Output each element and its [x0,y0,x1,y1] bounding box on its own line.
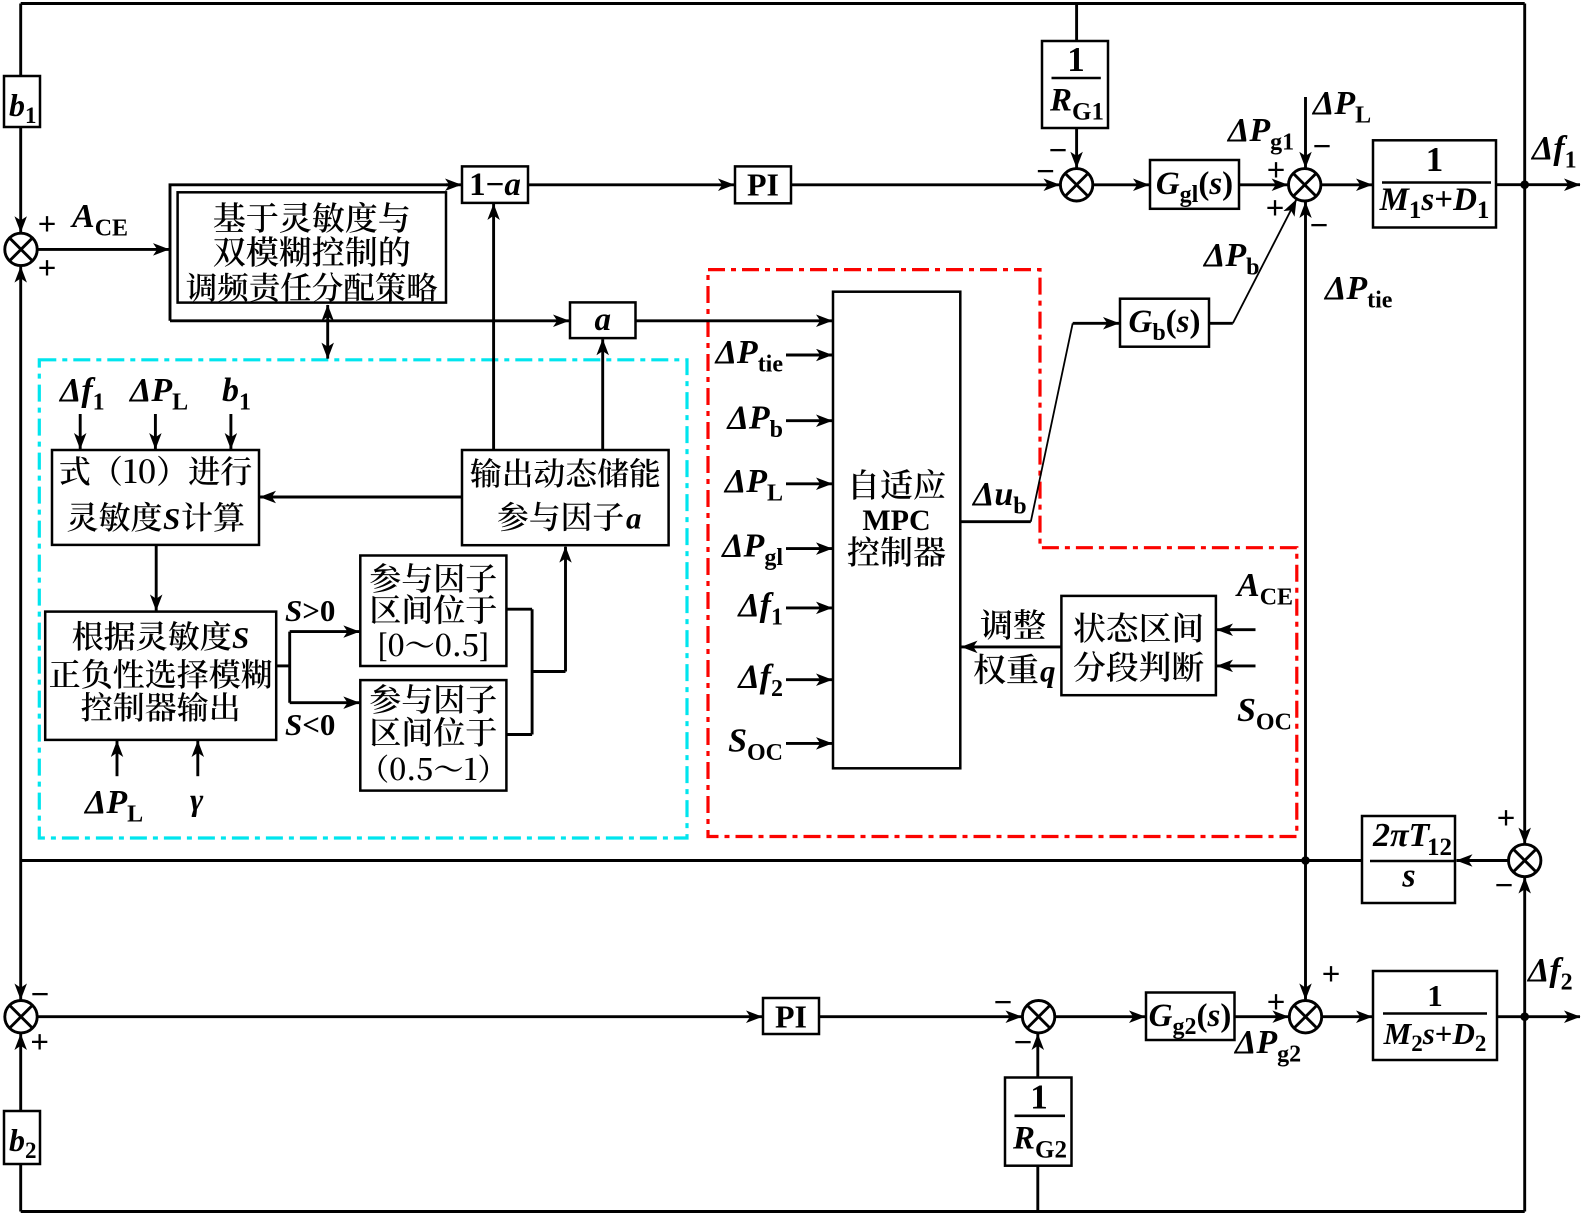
svg-text:+: + [1267,985,1286,1021]
svg-text:+: + [38,207,57,243]
block state-interval judgement [1061,596,1216,695]
text [0~0.5] [380,632,486,661]
wire: participation factor up into 1-a [492,204,495,450]
svg-text:a: a [626,501,642,536]
summing junction S4 (ACE area2) [5,1001,37,1033]
wire: Δub into Gb [1073,322,1119,325]
wire: a into MPC [636,319,833,322]
wire: S5 to Gg2 [1055,1015,1145,1018]
wire: Δf2 feedback bottom edge [21,1210,1525,1213]
wire: S3 to 1/(M1s+D1) [1321,183,1372,186]
svg-text:−: − [1014,1025,1033,1061]
wire: ΔPtie down into S6 [1304,861,1307,1000]
svg-text:2πT: 2πT [1372,817,1431,854]
svg-text:a: a [594,302,611,338]
wire: b2 up into S4 [19,1034,22,1111]
text line 调频责任分配策略 [187,272,438,302]
wire: ΔPL into sum S3 [1304,97,1307,168]
wire: ACE into state box [1217,628,1256,631]
wire: input Δf2 into MPC [786,678,832,681]
wire: ΔPtie up into S1 [19,267,22,861]
summing junction S5 (governor2 input) [1022,1001,1054,1033]
gain block a [570,302,636,338]
cyan dash-dot fuzzy-logic region frame [39,360,687,838]
wire: adjust weight q into MPC [962,645,1062,648]
svg-text:S: S [163,501,180,536]
svg-text:12: 12 [1427,834,1452,861]
svg-text:−: − [1495,868,1514,904]
svg-text:S<0: S<0 [285,707,335,742]
svg-text:+: + [1322,957,1341,993]
red dash-dot MPC region frame [708,270,1297,837]
node Δf1 [1520,180,1529,189]
wire: input ΔPb into MPC [786,419,832,422]
svg-text:R: R [1049,83,1072,119]
summing junction S6 (power balance area2) [1289,1001,1321,1033]
svg-text:1: 1 [1426,140,1444,179]
svg-text:+: + [1267,153,1286,189]
svg-text:1−a: 1−a [469,167,521,203]
wire: S2 to Ggl [1093,183,1149,186]
gain block 1-a [462,166,528,203]
wire: Ggl to sum S3 [1239,183,1288,186]
block factor in [0~0.5] [360,556,506,667]
block factor in (0.5~1) [360,680,506,791]
svg-text:M1s+D1: M1s+D1 [1379,182,1490,224]
svg-text:−: − [31,977,50,1013]
text 状态区间 [1074,612,1202,643]
wire: factor a back to sensitivity box [260,496,462,499]
wire: ΔPtie up into S3 [1304,202,1307,861]
wire: S1 output ACE to strategy box [37,248,169,251]
wire: right vertical to bottom feedback [1523,1017,1526,1212]
svg-text:−: − [1313,129,1332,165]
svg-text:R: R [1012,1121,1035,1157]
text 式（10）进行 [60,456,251,486]
wire: ΔPL up into selection box [116,741,119,776]
wire: branch down into 1/RG1 [1075,4,1078,42]
transfer block Gb(s) [1120,299,1209,347]
wire: S6 to 1/(M2s+D2) [1322,1015,1372,1018]
text 控制器 [848,536,946,567]
summing junction S2 (governor1 input) [1060,169,1092,201]
wire: SOC into state box [1217,664,1256,667]
text (0.5~1) [379,755,489,783]
wire: 1/RG2 up into S5 [1036,1034,1039,1078]
block select fuzzy output by sign of S [45,612,276,740]
wire: input SOC into MPC [786,742,832,745]
wire: right vertical from Δf1 node up to top edge [1523,4,1526,185]
svg-text:q: q [1040,654,1056,689]
transfer block 2πT12/s [1362,816,1455,903]
wire: PI to sum S2 [791,183,1060,186]
wire: 1/RG1 down into sum S2 [1075,128,1078,168]
wire: selection box outputs branch [276,664,290,667]
wire: PI2 to sum S5 [819,1015,1022,1018]
wire: input ΔPtie into MPC [786,354,832,357]
text 权重q [974,654,1038,685]
text 灵敏度S计算 [68,502,162,532]
transfer block 1/(M2s+D2) [1373,971,1497,1060]
svg-text:MPC: MPC [862,504,930,537]
wire: ΔPtie to area sums [21,859,1362,862]
svg-text:M2s+D2: M2s+D2 [1383,1016,1487,1056]
gain block b2 [4,1111,40,1164]
svg-text:−: − [1036,154,1055,190]
text 调整 [981,609,1045,640]
svg-text:−: − [994,985,1013,1021]
wire: Δf1 output [1496,183,1580,186]
node ΔPtie [1301,856,1310,865]
wire: ΔPtie down into S4 [19,861,22,1000]
svg-text:+: + [1497,801,1516,837]
gain block 1/RG2 [1005,1078,1072,1166]
controller block PI area1 [735,166,791,203]
text 参与因子a [498,502,623,532]
text line 基于灵敏度与 [214,202,409,233]
wire: S4 to PI area2 [37,1015,762,1018]
svg-text:s: s [1401,858,1415,895]
block output dynamic ESS participation factor a [462,450,669,545]
text 控制器输出 [82,692,239,722]
text 正负性选择模糊 [50,659,272,689]
svg-text:−: − [1310,208,1329,244]
svg-text:1: 1 [1067,40,1085,79]
svg-text:G2: G2 [1035,1137,1067,1164]
block sensitivity S calculation [52,450,259,545]
wire: ΔPb diagonal into sum S3 [1233,200,1297,324]
summing junction S1 (ACE area1) [5,233,37,265]
wire: Δf1 feedback top edge [21,2,1525,5]
svg-text:1: 1 [1427,978,1443,1013]
text 分段判断 [1074,651,1204,682]
wire: input Δf1 into MPC [786,606,832,609]
wire: b2 to bottom feedback [19,1164,22,1212]
text 根据灵敏度S [73,621,231,651]
text line 双模糊控制的 [214,236,410,267]
svg-text:PI: PI [775,999,807,1035]
transfer block Gg1(s) [1150,160,1239,209]
wire: Δub from MPC out [961,520,1031,523]
wire: Δf1 down into S7 [1523,185,1526,844]
text 自适应 [853,469,945,500]
wire: b1 output into sum S1 [19,127,22,232]
wire: Δub diagonal [1031,323,1073,521]
wire: 1-a to PI [528,183,734,186]
summing junction S7 (tie-line) [1509,844,1541,876]
svg-text:+: + [1266,191,1285,227]
wire: γ up into selection box [196,741,199,776]
wire: bottom feedback into 1/RG2 [1036,1166,1039,1212]
wire: input ΔPgl into MPC [786,547,832,550]
wire: ΔPL into sensitivity box [154,414,157,449]
wire: strategy to 1-a [446,183,461,186]
svg-text:1: 1 [1030,1078,1048,1117]
wire: S7 into 2πT12/s [1457,859,1509,862]
wire: strategy bottom edge to a block [170,319,569,322]
strategy box (responsibility allocation, double border) [170,185,458,321]
svg-text:S>0: S>0 [285,593,335,628]
wire: Δf2 output [1497,1015,1580,1018]
wire: Δf2 up into S7 [1523,878,1526,1017]
svg-text:PI: PI [747,167,779,203]
controller block adaptive MPC [833,292,960,769]
svg-text:G1: G1 [1072,99,1104,126]
svg-text:γ: γ [190,781,204,817]
svg-text:+: + [38,251,57,287]
wire: Gg2 to sum S6 [1235,1015,1289,1018]
wire: input ΔPL into MPC [786,482,832,485]
gain block b1 [4,76,40,127]
svg-text:+: + [30,1025,49,1061]
wire: Gb output stub [1209,322,1233,325]
summing junction S3 (power balance area1) [1289,169,1321,201]
double-headed arrow strategy <-> fuzzy region [326,305,329,359]
svg-text:S: S [232,620,249,655]
wire: S into selection box [155,545,158,611]
node Δf2 [1520,1012,1529,1021]
transfer block 1/(M1s+D1) [1373,140,1496,227]
wire: participation factor up into a [601,339,604,450]
wire: Δf1 into sensitivity box [79,414,82,449]
transfer block Gg2(s) [1146,993,1235,1041]
gain block 1/RG1 [1042,41,1108,128]
wire: left drop into b1 [19,4,22,77]
wire: b1 into sensitivity box [229,414,232,449]
wire: interval boxes to participation factor box [506,608,532,611]
controller block PI area2 [763,998,819,1034]
